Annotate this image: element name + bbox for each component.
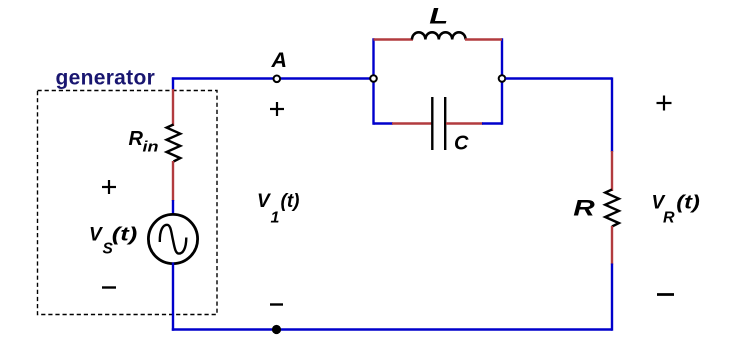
svg-text:(t): (t) xyxy=(112,225,138,246)
plus sign generator xyxy=(102,180,116,194)
svg-text:A: A xyxy=(271,48,288,72)
node: LC right open circle xyxy=(499,75,506,82)
node: LC left open circle xyxy=(370,75,377,82)
resistor R_in (zigzag) xyxy=(167,125,181,162)
wire: red above resistor R xyxy=(611,151,613,191)
generator dashed enclosure xyxy=(38,91,218,315)
label V_S(t) xyxy=(89,225,137,258)
svg-text:C: C xyxy=(454,133,469,155)
label V_1(t) xyxy=(257,191,299,227)
label V_R(t) xyxy=(652,193,700,227)
LC top wire red right of coil xyxy=(465,38,502,40)
plus sign node A xyxy=(270,102,284,116)
node A open circle xyxy=(274,76,281,83)
svg-text:R: R xyxy=(129,128,144,150)
wire: blue segment below source xyxy=(172,263,174,331)
svg-text:(t): (t) xyxy=(676,193,700,214)
LC bottom wire red left of capacitor xyxy=(392,122,432,124)
inductor L coil xyxy=(412,32,466,39)
wire: right vertical upper blue xyxy=(611,77,613,152)
wire: red segment below R_in xyxy=(172,161,174,201)
plus sign right xyxy=(657,96,672,111)
label R_in xyxy=(129,128,159,156)
wire: right horizontal from LC to right branch (blue) xyxy=(506,77,613,79)
svg-text:in: in xyxy=(143,139,159,156)
wire: blue segment above source xyxy=(172,200,174,216)
svg-text:R: R xyxy=(663,210,675,227)
label generator xyxy=(56,67,156,90)
LC bottom wire red right of capacitor xyxy=(446,122,483,124)
label R xyxy=(573,196,595,221)
svg-text:1: 1 xyxy=(271,210,280,227)
LC bottom wire blue left corner xyxy=(374,122,394,124)
wire: blue top segment of left branch xyxy=(172,77,174,90)
svg-text:L: L xyxy=(429,4,448,29)
LC bottom wire blue right corner xyxy=(482,122,502,124)
wire: red segment above R_in xyxy=(172,89,174,126)
wire: red below resistor R xyxy=(611,226,613,265)
wire: top horizontal A-line (blue) xyxy=(172,77,374,79)
wire: bottom horizontal (blue) xyxy=(172,328,612,330)
svg-text:R: R xyxy=(573,196,595,221)
label A xyxy=(271,48,288,72)
source V_S sine wave xyxy=(160,225,187,254)
resistor R (zigzag) xyxy=(605,190,619,227)
LC block: left vertical wire (blue) xyxy=(372,38,374,124)
LC top wire red left of coil xyxy=(374,38,414,40)
svg-text:(t): (t) xyxy=(281,191,300,212)
wire: right vertical lower blue xyxy=(611,264,613,331)
minus sign right xyxy=(657,293,674,296)
minus sign V_1 xyxy=(270,303,283,305)
minus sign generator xyxy=(102,286,116,288)
junction dot bottom node xyxy=(272,325,281,334)
svg-text:V: V xyxy=(257,191,271,212)
label L xyxy=(429,4,448,29)
LC block: right vertical wire (blue) xyxy=(501,38,503,124)
capacitor C right plate xyxy=(444,97,446,150)
capacitor C left plate xyxy=(431,97,433,150)
label C xyxy=(454,133,469,155)
svg-text:V: V xyxy=(89,225,103,246)
source V_S circle xyxy=(148,214,197,263)
svg-text:generator: generator xyxy=(56,67,156,90)
